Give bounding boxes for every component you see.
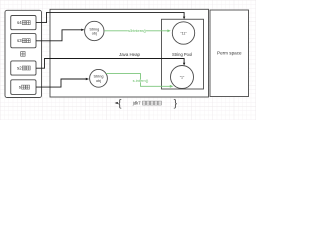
svg-text:s3.intern(): s3.intern() <box>128 28 147 33</box>
circle String obj (top) <box>85 21 104 40</box>
svg-text:s.intern(): s.intern() <box>133 78 149 83</box>
Perm space box <box>210 10 249 97</box>
svg-text:obj: obj <box>92 32 97 36</box>
Java Heap box <box>50 9 209 97</box>
svg-text:s3: s3 <box>17 38 22 43</box>
caption text jdk7 第二段代码 <box>132 101 161 106</box>
wire s -> String obj (bottom) <box>36 78 89 87</box>
circle "11" <box>172 22 194 44</box>
wire s3 -> String obj (top) <box>36 29 85 41</box>
svg-text:obj: obj <box>96 79 101 83</box>
green intern line s.intern() <box>106 74 173 88</box>
svg-text:"1": "1" <box>180 75 185 79</box>
svg-text:}: } <box>174 98 178 110</box>
circle "1" <box>171 66 194 89</box>
svg-text:String Pool: String Pool <box>172 52 192 57</box>
String Pool box <box>162 19 204 89</box>
wire s2 -> "1" <box>36 59 185 69</box>
svg-text:s: s <box>19 84 21 89</box>
svg-text:s2: s2 <box>17 65 22 70</box>
box s3 <box>11 34 36 48</box>
svg-text:"11": "11" <box>180 31 187 35</box>
box s2 <box>11 61 36 75</box>
box s4 <box>11 16 36 30</box>
canvas background <box>0 0 256 120</box>
caption arrow <box>115 102 118 104</box>
box s <box>11 80 36 95</box>
green intern line s3.intern() <box>104 28 171 33</box>
svg-text:{: { <box>118 98 122 110</box>
svg-text:jdk7: jdk7 <box>132 101 141 106</box>
svg-text:Perm space: Perm space <box>217 50 242 55</box>
wire s4 -> "11" <box>36 12 185 22</box>
svg-text:s4: s4 <box>17 20 22 25</box>
stack outer box <box>5 10 42 97</box>
svg-text:Java Heap: Java Heap <box>119 52 141 57</box>
label 栈 (stack) <box>21 52 25 57</box>
circle String obj (bottom) <box>90 69 108 87</box>
